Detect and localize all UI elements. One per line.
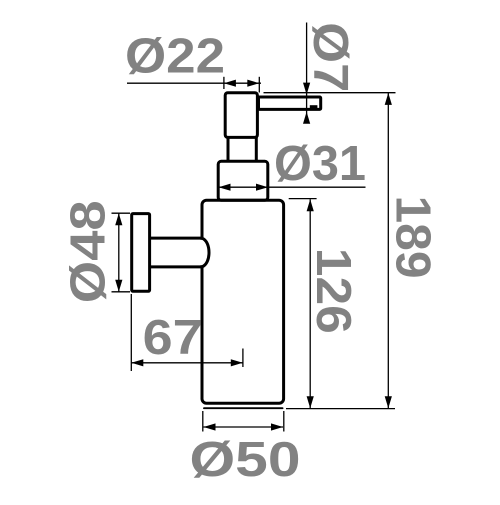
- dim Ø31 line: [219, 186, 366, 188]
- dim Ø22 ext right: [258, 77, 260, 93]
- dim 67 ext left: [130, 294, 132, 371]
- dim Ø50 ext right: [283, 411, 285, 432]
- dim 126 ext top: [289, 198, 317, 200]
- collar: [218, 161, 268, 200]
- dim Ø31 arrow left: [219, 184, 231, 191]
- svg-text:Ø48: Ø48: [62, 200, 116, 303]
- svg-text:189: 189: [385, 196, 439, 279]
- dim Ø48 line: [118, 213, 120, 292]
- svg-text:67: 67: [143, 311, 203, 365]
- svg-text:Ø31: Ø31: [274, 137, 366, 191]
- neck right wall: [255, 137, 258, 163]
- dim Ø48 ext top: [112, 212, 131, 214]
- dim Ø22 arrow right: [247, 80, 259, 87]
- dim Ø22 ext left: [223, 77, 225, 89]
- dim Ø22 line: [127, 82, 261, 84]
- svg-text:Ø7: Ø7: [303, 22, 357, 92]
- dim Ø48 arrow down: [115, 280, 122, 292]
- mounting arm: [151, 238, 210, 267]
- neck left wall: [227, 137, 230, 163]
- dim 126 line: [309, 199, 311, 408]
- dim 189 line: [387, 93, 389, 408]
- svg-text:Ø22: Ø22: [125, 30, 225, 84]
- body cylinder: [202, 200, 284, 403]
- dim 67 arrow left: [131, 359, 143, 366]
- dim 67 line: [131, 362, 243, 364]
- svg-text:Ø50: Ø50: [190, 433, 301, 487]
- dim 189 arrow down: [385, 396, 392, 408]
- dim Ø7 arrow up: [303, 112, 310, 124]
- spout: [259, 97, 321, 109]
- bottom rim: [204, 407, 283, 409]
- dim Ø50 arrow left: [204, 423, 216, 430]
- dim 189 ext bottom: [286, 408, 395, 410]
- dim 67 arrow right: [231, 359, 243, 366]
- dim 126 arrow down: [307, 396, 314, 408]
- dim Ø22 arrow left: [224, 80, 236, 87]
- dim Ø50 line: [204, 426, 284, 428]
- dim Ø7 arrow down: [303, 83, 310, 95]
- wall plate: [132, 214, 150, 292]
- dim Ø31 arrow right: [256, 184, 268, 191]
- dim Ø50 arrow right: [271, 423, 283, 430]
- dim Ø7 line upper: [306, 23, 308, 121]
- dim 189 ext top: [264, 92, 396, 94]
- white gap in body edge at arm: [198, 240, 205, 265]
- pump cap: [225, 93, 257, 138]
- svg-text:126: 126: [306, 248, 360, 334]
- spout outlet notch: [310, 105, 318, 110]
- dim Ø50 ext left: [202, 411, 204, 432]
- dim 126 arrow up: [307, 199, 314, 211]
- dim Ø48 ext bottom: [112, 291, 131, 293]
- dim 67 axis tick: [242, 349, 244, 368]
- dim 189 arrow up: [385, 93, 392, 105]
- dim Ø48 arrow up: [115, 213, 122, 225]
